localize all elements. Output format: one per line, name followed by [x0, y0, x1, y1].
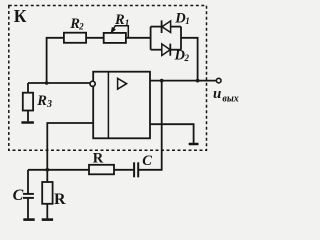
- svg-text:C: C: [142, 153, 152, 169]
- svg-text:вых: вых: [222, 93, 238, 104]
- svg-text:К: К: [14, 6, 27, 26]
- svg-text:R: R: [54, 191, 66, 208]
- svg-text:C: C: [13, 187, 24, 204]
- svg-text:и: и: [213, 86, 221, 102]
- svg-text:R: R: [93, 150, 104, 166]
